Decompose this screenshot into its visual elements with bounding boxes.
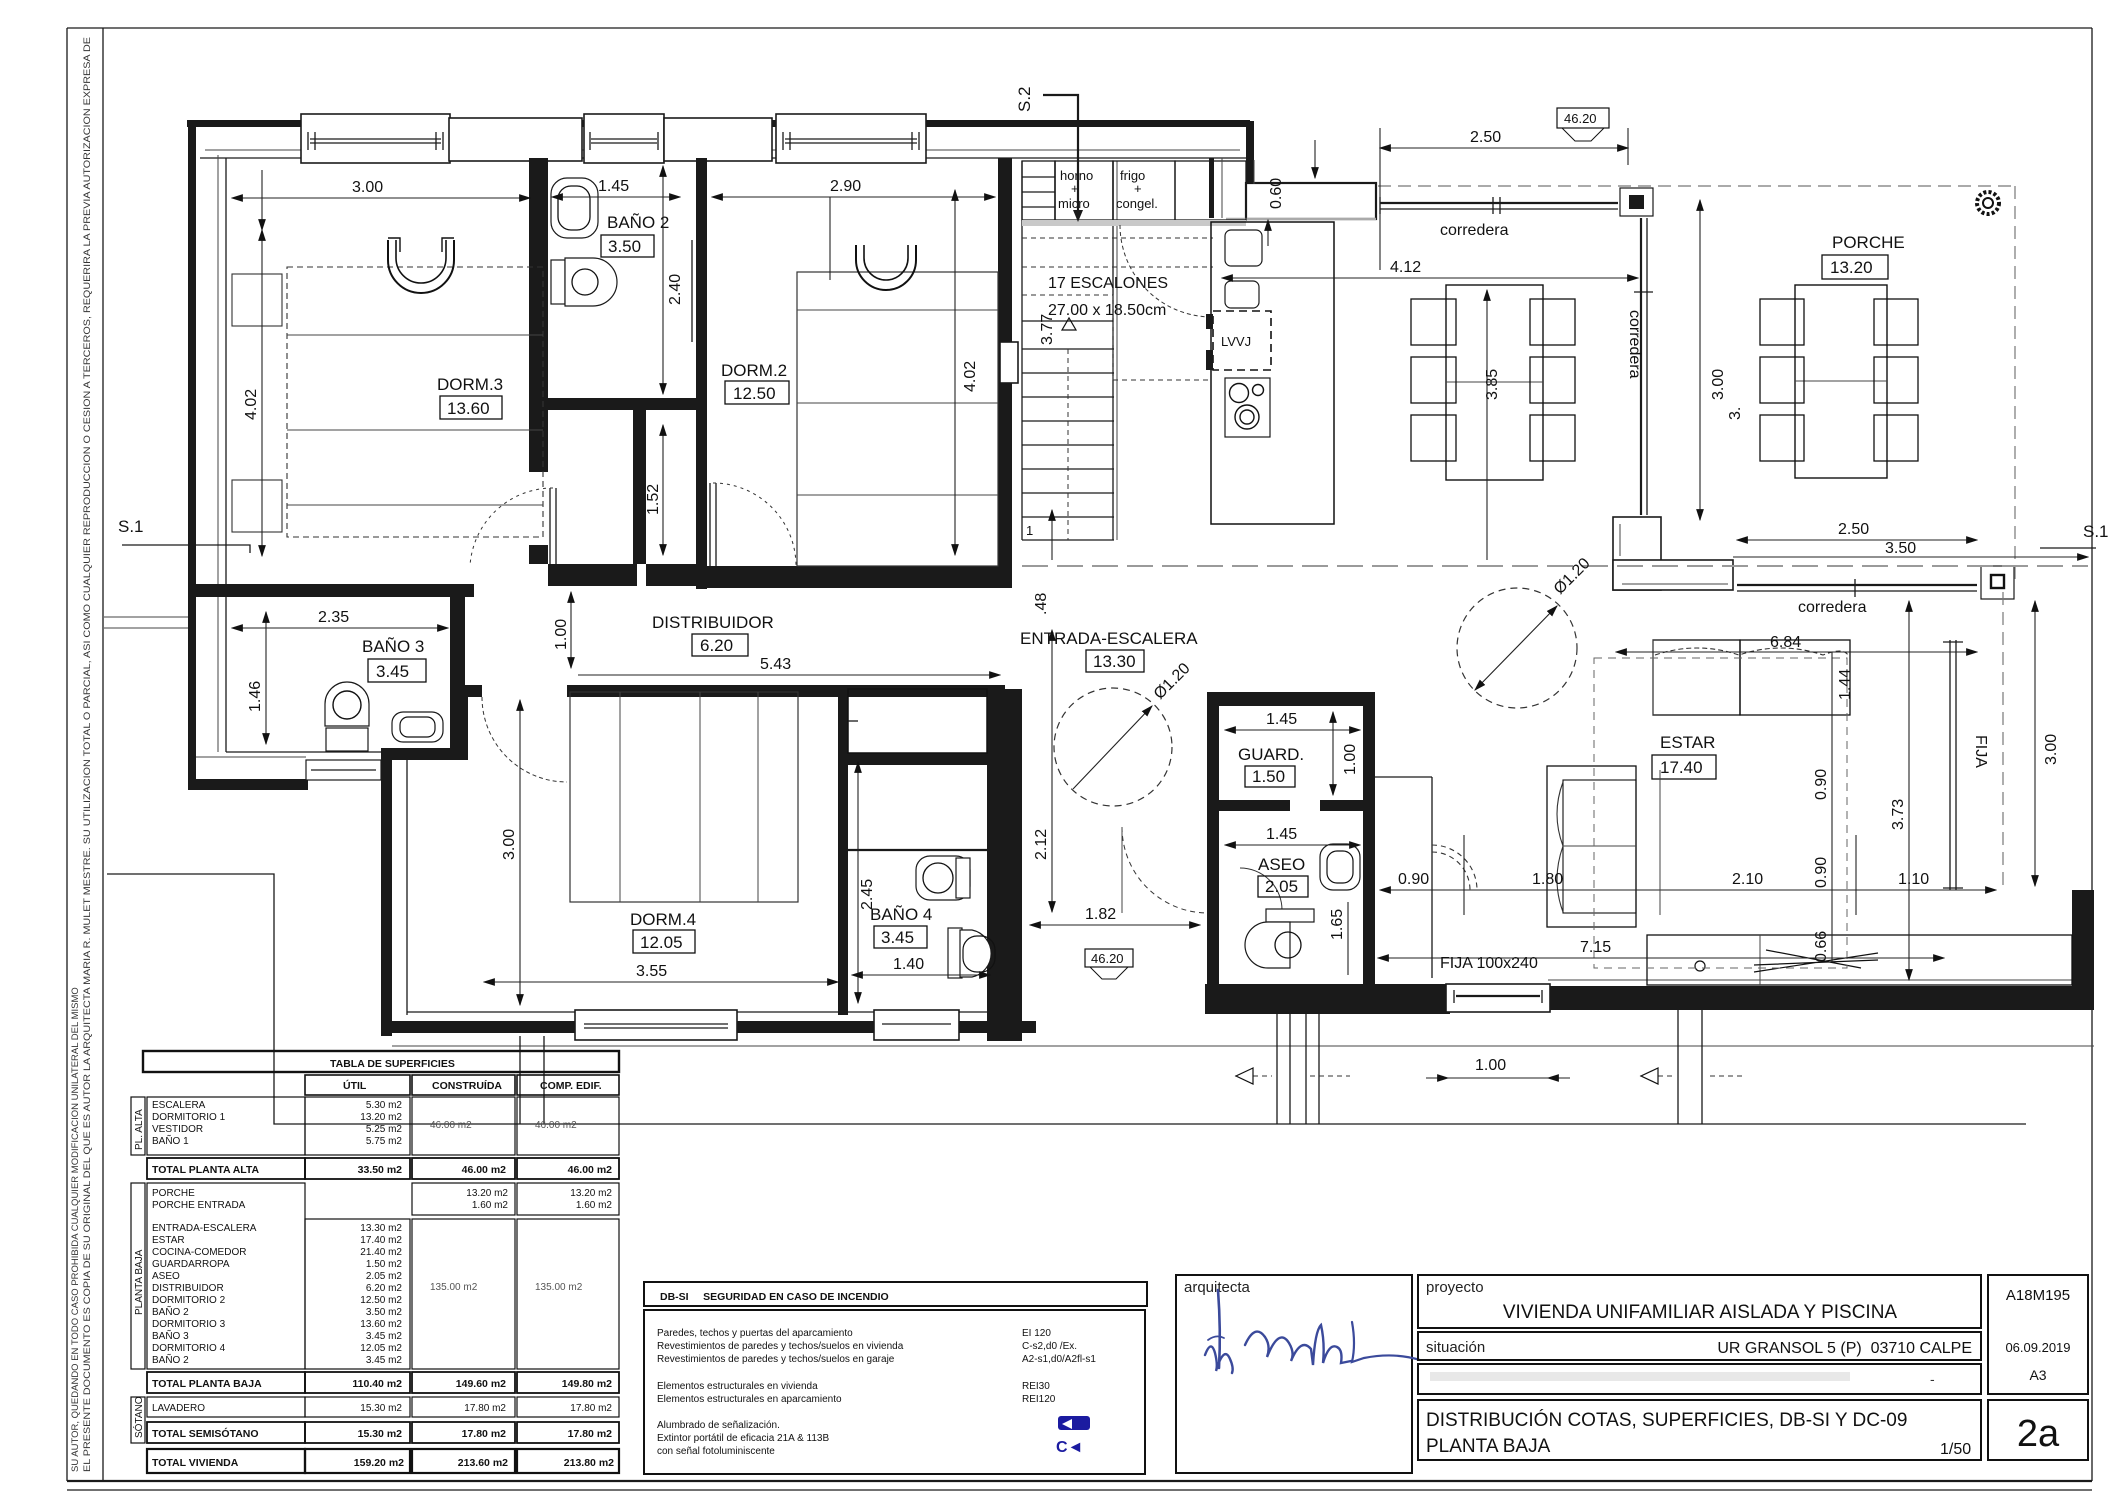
svg-text:110.40 m2: 110.40 m2 (352, 1378, 402, 1390)
svg-text:46.00 m2: 46.00 m2 (462, 1164, 507, 1176)
svg-text:1.60 m2: 1.60 m2 (472, 1200, 509, 1211)
svg-text:46.20: 46.20 (1091, 951, 1124, 966)
wall: top exterior band (187, 120, 1250, 127)
total planta baja (147, 1372, 305, 1393)
wall pier between windows (449, 118, 582, 161)
dim 3.50 estar (1733, 556, 2088, 558)
svg-text:VESTIDOR: VESTIDOR (152, 1124, 203, 1135)
kitchen counter block (1211, 222, 1334, 524)
bano4 toilet (948, 928, 995, 978)
svg-text:149.60 m2: 149.60 m2 (456, 1378, 506, 1390)
wall: bano2 east / dorm2 west (696, 158, 707, 589)
bano2 sink (551, 178, 598, 238)
svg-text:1.46: 1.46 (247, 681, 264, 712)
corredera N glass (1380, 197, 1618, 214)
guard/aseo divider (1207, 800, 1290, 811)
bano3 sink (392, 712, 443, 742)
svg-text:SU AUTOR, QUEDANDO EN TODO CAS: SU AUTOR, QUEDANDO EN TODO CASO PROHIBID… (70, 987, 81, 1472)
svg-text:1.50 m2: 1.50 m2 (366, 1259, 403, 1270)
svg-text:C◄: C◄ (1056, 1439, 1083, 1456)
wall: west exterior (188, 120, 196, 785)
svg-text:12.50: 12.50 (733, 384, 776, 403)
dim 1.82 (1030, 924, 1200, 926)
svg-text:1.50: 1.50 (1252, 767, 1285, 786)
entrada door arc (1122, 827, 1208, 913)
wall: south of bano3 (188, 779, 308, 790)
svg-text:1.52: 1.52 (645, 484, 662, 515)
kitchen door arc (1120, 225, 1212, 317)
svg-text:13.60: 13.60 (447, 399, 490, 418)
bano3 toilet (325, 682, 369, 751)
situacion box (1418, 1332, 1981, 1360)
svg-text:DISTRIBUIDOR: DISTRIBUIDOR (652, 613, 774, 632)
svg-text:17.80 m2: 17.80 m2 (464, 1403, 506, 1414)
wall: dorm4/bano4 divider (838, 697, 848, 1015)
empty box (1418, 1364, 1981, 1394)
aseo toilet (1245, 909, 1314, 968)
bed dorm3 (287, 238, 543, 537)
bed dorm4 (570, 692, 798, 902)
dim 1.00 rot (570, 592, 572, 668)
wall: bano3 east (450, 597, 465, 752)
svg-text:1.45: 1.45 (1266, 826, 1297, 843)
exterior walls (107, 114, 2094, 1124)
wall stub kitchen east (1209, 158, 1214, 218)
door aseo arc (1240, 868, 1282, 910)
bano4 north wall (848, 753, 1005, 765)
svg-text:DORMITORIO 2: DORMITORIO 2 (152, 1295, 226, 1306)
door dorm2 (leaf+arc) (709, 483, 711, 566)
hob (1225, 378, 1270, 437)
svg-text:2.40: 2.40 (667, 274, 684, 305)
46.20 hexagon top (1557, 108, 1609, 141)
svg-text:17.40 m2: 17.40 m2 (360, 1235, 402, 1246)
svg-text:A2-s1,d0/A2fl-s1: A2-s1,d0/A2fl-s1 (1022, 1354, 1096, 1365)
svg-text:Revestimientos de paredes y: Revestimientos de paredes y techos/suelo… (657, 1341, 904, 1352)
svg-text:159.20 m2: 159.20 m2 (354, 1457, 404, 1469)
window FIJA 100x240 (south) (1446, 984, 1550, 1012)
svg-text:TOTAL PLANTA BAJA: TOTAL PLANTA BAJA (152, 1378, 262, 1390)
svg-text:Paredes, techos y puertas: Paredes, techos y puertas del aparcamien… (657, 1328, 853, 1339)
aseo sink (1320, 844, 1360, 890)
group PLANTA BAJA (131, 1183, 145, 1369)
svg-text:0.66: 0.66 (1813, 931, 1830, 962)
stair right boundary (1112, 161, 1114, 540)
svg-text:Extintor portátil de eficac: Extintor portátil de eficacia 21A & 113B (657, 1433, 829, 1444)
svg-text:46.20: 46.20 (1564, 111, 1597, 126)
estar dashed zone (1594, 658, 1847, 968)
svg-text:5.43: 5.43 (760, 656, 791, 673)
svg-text:Elementos estructurales en: Elementos estructurales en aparcamiento (657, 1394, 842, 1405)
svg-text:2.10: 2.10 (1732, 871, 1763, 888)
arquitecta box (1176, 1275, 1412, 1473)
wall: dorm2 east / stair west (998, 158, 1012, 588)
svg-text:S.1: S.1 (118, 517, 144, 536)
svg-text:17 ESCALONES: 17 ESCALONES (1048, 275, 1168, 292)
svg-text:1.82: 1.82 (1085, 906, 1116, 923)
window N3 (776, 114, 926, 163)
door dorm4 (arc) (482, 697, 567, 782)
svg-text:3.45: 3.45 (376, 662, 409, 681)
svg-text:ESTAR: ESTAR (152, 1235, 185, 1246)
svg-text:17.80 m2: 17.80 m2 (570, 1403, 612, 1414)
svg-text:6.20: 6.20 (700, 636, 733, 655)
svg-text:149.80 m2: 149.80 m2 (562, 1378, 612, 1390)
total planta alta (147, 1158, 305, 1179)
svg-text:BAÑO 1: BAÑO 1 (152, 1134, 189, 1147)
svg-text:5.25 m2: 5.25 m2 (366, 1124, 403, 1135)
svg-text:12.50 m2: 12.50 m2 (360, 1295, 402, 1306)
svg-text:2.90: 2.90 (830, 178, 861, 195)
svg-text:2.50: 2.50 (1470, 129, 1501, 146)
window N2 (584, 114, 664, 163)
furniture (232, 178, 2072, 985)
svg-text:REI30: REI30 (1022, 1381, 1050, 1392)
46.20 hexagon entrada (1085, 949, 1133, 979)
stair upper treads (1022, 161, 1113, 321)
wall: dorm3 south (196, 584, 474, 597)
aseo west wall (1207, 811, 1219, 984)
wall: dorm2 south band (707, 566, 1000, 588)
dim 4.12 (1222, 277, 1638, 279)
svg-text:1.65: 1.65 (1329, 909, 1346, 940)
svg-text:TOTAL VIVIENDA: TOTAL VIVIENDA (152, 1457, 239, 1469)
dim 2.50 estar top (1737, 539, 1977, 541)
corner L wall dining/estar (1613, 517, 1733, 590)
sink boxes (1225, 230, 1262, 266)
svg-text:VIVIENDA UNIFAMILIAR AISLADA Y: VIVIENDA UNIFAMILIAR AISLADA Y PISCINA (1503, 1302, 1898, 1323)
svg-text:ESTAR: ESTAR (1660, 733, 1715, 752)
dim 5.43 (578, 674, 1000, 676)
svg-text:5.30 m2: 5.30 m2 (366, 1100, 403, 1111)
svg-text:17.80 m2: 17.80 m2 (462, 1428, 507, 1440)
svg-text:2.12: 2.12 (1033, 829, 1050, 860)
door dorm3 (leaf+arc) (549, 488, 551, 566)
svg-text:A18M195: A18M195 (2006, 1287, 2070, 1304)
svg-text:S.2: S.2 (1015, 86, 1034, 112)
signature (1205, 1290, 1420, 1373)
svg-text:DORMITORIO 4: DORMITORIO 4 (152, 1343, 226, 1354)
svg-text:Elementos estructurales en: Elementos estructurales en vivienda (657, 1381, 818, 1392)
wall: dorm3 east / bano2 west (529, 158, 548, 472)
svg-text:1.00: 1.00 (1475, 1057, 1506, 1074)
dim 7.15 (1378, 957, 1944, 959)
dim 2.40 bano2 (662, 166, 664, 394)
svg-text:46.00 m2: 46.00 m2 (568, 1164, 613, 1176)
svg-text:BAÑO 3: BAÑO 3 (152, 1329, 189, 1342)
section line S1 dashed across (1022, 565, 2088, 567)
window S1 (dorm4) (575, 1010, 737, 1040)
svg-text:17.80 m2: 17.80 m2 (568, 1428, 613, 1440)
foundation line below south walls (392, 1045, 2094, 1047)
window N1 (301, 114, 450, 163)
svg-text:DB-SI SEGURIDAD EN CASO: DB-SI SEGURIDAD EN CASO DE INCENDIO (660, 1291, 889, 1303)
svg-text:3.45: 3.45 (881, 928, 914, 947)
S.1 left mark (118, 517, 250, 553)
svg-text:TOTAL SEMISÓTANO: TOTAL SEMISÓTANO (152, 1427, 259, 1440)
circle 1.20 estar (1457, 588, 1577, 708)
svg-text:DORM.3: DORM.3 (437, 375, 503, 394)
svg-text:3.45 m2: 3.45 m2 (366, 1355, 403, 1366)
svg-text:1: 1 (1026, 523, 1033, 538)
dim 1.45 bano2 (552, 196, 680, 198)
svg-text:7.15: 7.15 (1580, 939, 1611, 956)
stair lower flight treads (1022, 349, 1114, 540)
svg-text:GUARD.: GUARD. (1238, 745, 1304, 764)
svg-text:1.45: 1.45 (598, 178, 629, 195)
svg-text:1.44: 1.44 (1837, 669, 1854, 700)
dim 3.85 (1486, 290, 1488, 560)
svg-text:15.30 m2: 15.30 m2 (360, 1403, 402, 1414)
svg-text:3.50 m2: 3.50 m2 (366, 1307, 403, 1318)
svg-text:2.05 m2: 2.05 m2 (366, 1271, 403, 1282)
dimensions and labels (232, 108, 2088, 1078)
dim 1.00 guard (1332, 712, 1334, 795)
svg-text:12.05 m2: 12.05 m2 (360, 1343, 402, 1354)
dim 2.35 bano3 (232, 627, 448, 629)
svg-text:FIJA 100x240: FIJA 100x240 (1440, 955, 1538, 972)
svg-text:13.20: 13.20 (1830, 258, 1873, 277)
S.2 section mark (1015, 86, 1083, 222)
dim 2.12 (1051, 630, 1053, 912)
corredera S glass (estar north) (1737, 579, 1977, 597)
dim 3.00 dorm4 (519, 700, 521, 1005)
svg-text:TABLA DE SUPERFICIES: TABLA DE SUPERFICIES (330, 1058, 455, 1070)
wall: entrada west / bano4 east (987, 689, 1022, 1041)
window W-west below bano3 (306, 760, 381, 780)
svg-text:Revestimientos de paredes y: Revestimientos de paredes y techos/suelo… (657, 1354, 895, 1365)
svg-text:13.30 m2: 13.30 m2 (360, 1223, 402, 1234)
wall: south exterior of dorm4/bano4 (381, 1021, 1036, 1033)
right info box (1988, 1275, 2088, 1394)
svg-text:1.40: 1.40 (893, 956, 924, 973)
niche plate on dorm2 east wall (1000, 342, 1018, 383)
svg-text:13.20 m2: 13.20 m2 (570, 1188, 612, 1199)
svg-text:ESCALERA: ESCALERA (152, 1100, 206, 1111)
svg-text:3.: 3. (1727, 407, 1744, 420)
column NE of dining (1620, 188, 1653, 216)
dim 1.52 (662, 425, 664, 555)
svg-text:S.1: S.1 (2083, 522, 2109, 541)
blue icon: emergency light (1058, 1416, 1090, 1430)
svg-text:1.80: 1.80 (1532, 871, 1563, 888)
dashed porch edge east (2002, 592, 2004, 890)
svg-text:33.50 m2: 33.50 m2 (358, 1164, 403, 1176)
svg-text:135.00 m2: 135.00 m2 (535, 1282, 583, 1293)
svg-text:1.60 m2: 1.60 m2 (576, 1200, 613, 1211)
svg-text:17.40: 17.40 (1660, 758, 1703, 777)
svg-text:+: + (1134, 181, 1142, 196)
svg-text:2a: 2a (2017, 1413, 2060, 1455)
svg-text:proyecto: proyecto (1426, 1279, 1484, 1296)
svg-text:3.85: 3.85 (1484, 369, 1501, 400)
svg-text:6.84: 6.84 (1770, 634, 1801, 651)
svg-text:DORMITORIO 1: DORMITORIO 1 (152, 1112, 226, 1123)
svg-text:PLANTA BAJA: PLANTA BAJA (1426, 1436, 1551, 1457)
wall: corridor stub below dorm3 door (529, 545, 548, 564)
svg-text:situación: situación (1426, 1339, 1485, 1356)
porch dashed boundary (1378, 185, 2015, 187)
svg-text:.48: .48 (1033, 593, 1050, 615)
svg-text:C-s2,d0 /Ex.: C-s2,d0 /Ex. (1022, 1341, 1077, 1352)
svg-text:213.80 m2: 213.80 m2 (564, 1457, 614, 1469)
sliding door pocket bano2 (697, 245, 704, 337)
stair left line (1021, 161, 1023, 540)
wall: estar SE corner (2072, 890, 2094, 1010)
tabla de superficies (131, 1051, 619, 1473)
distribuidor niche walls (633, 410, 646, 564)
sheet title box (1418, 1400, 1981, 1460)
svg-text:13.20 m2: 13.20 m2 (466, 1188, 508, 1199)
svg-text:2.50: 2.50 (1838, 521, 1869, 538)
svg-text:ENTRADA-ESCALERA: ENTRADA-ESCALERA (152, 1223, 257, 1234)
svg-text:3.77: 3.77 (1039, 314, 1056, 345)
dim 3.55 dorm4 (484, 981, 838, 983)
svg-text:DORM.2: DORM.2 (721, 361, 787, 380)
wall: top interior face (200, 157, 1246, 159)
svg-text:PORCHE: PORCHE (1832, 233, 1905, 252)
leader from plan through table (strike line) (107, 874, 2026, 1124)
svg-text:BAÑO 4: BAÑO 4 (870, 905, 932, 924)
svg-text:4.12: 4.12 (1390, 259, 1421, 276)
bedside tables dorm3 (232, 274, 282, 326)
dim 1.65 aseo (1347, 902, 1349, 975)
svg-text:3.00: 3.00 (2043, 734, 2060, 765)
wall: estar south band (1548, 986, 2094, 1010)
svg-text:1/50: 1/50 (1940, 1441, 1971, 1458)
svg-text:UR GRANSOL 5 (P) 03710 CALPE: UR GRANSOL 5 (P) 03710 CALPE (1717, 1340, 1972, 1357)
porch-entrada columns below (520, 1010, 1702, 1124)
svg-text:FIJA: FIJA (1972, 735, 1989, 768)
svg-text:SÓTANO: SÓTANO (132, 1396, 145, 1438)
bed dorm2 (797, 245, 998, 566)
dims 0.90 1.80 2.10 1.10 row (1380, 889, 1464, 891)
door estar 0.90 arc (1432, 845, 1477, 890)
svg-text:PORCHE ENTRADA: PORCHE ENTRADA (152, 1200, 246, 1211)
circle 1.20 entrada (1054, 688, 1172, 806)
closet partition east of aseo (1375, 776, 1432, 778)
bano4 interior divider (848, 849, 1005, 851)
svg-text:corredera: corredera (1440, 222, 1509, 239)
svg-text:4.02: 4.02 (243, 389, 260, 420)
wardrobe dorm4 (848, 689, 987, 753)
svg-text:6.20 m2: 6.20 m2 (366, 1283, 403, 1294)
svg-text:13.30: 13.30 (1093, 652, 1136, 671)
svg-text:DISTRIBUCIÓN COTAS, SUPERFICIE: DISTRIBUCIÓN COTAS, SUPERFICIES, DB-SI Y… (1426, 1409, 1907, 1431)
dim chain 0.90/0.90 vertical (1831, 716, 1833, 890)
svg-text:3.55: 3.55 (636, 963, 667, 980)
sofa top (estar) (1653, 640, 1850, 715)
svg-text:1.00: 1.00 (553, 619, 570, 650)
svg-text:21.40 m2: 21.40 m2 (360, 1247, 402, 1258)
svg-text:A3: A3 (2029, 1367, 2046, 1383)
svg-text:0.90: 0.90 (1813, 857, 1830, 888)
border-to-wall projection lines (104, 616, 188, 618)
svg-text:congel.: congel. (1116, 196, 1158, 211)
svg-text:corredera: corredera (1626, 310, 1643, 379)
dim 1.44 (1831, 652, 1833, 716)
svg-text:12.05: 12.05 (640, 933, 683, 952)
svg-text:27.00 x 18.50cm: 27.00 x 18.50cm (1048, 302, 1166, 319)
dim 1.45 aseo (1225, 844, 1360, 846)
svg-text:1.10: 1.10 (1898, 871, 1929, 888)
svg-text:3.73: 3.73 (1890, 799, 1907, 830)
svg-text:TOTAL PLANTA ALTA: TOTAL PLANTA ALTA (152, 1164, 260, 1176)
svg-text:3.50: 3.50 (608, 237, 641, 256)
svg-text:213.60 m2: 213.60 m2 (458, 1457, 508, 1469)
svg-text:3.50: 3.50 (1885, 540, 1916, 557)
sofa left (estar) (1547, 766, 1636, 927)
svg-text:PL. ALTA: PL. ALTA (134, 1109, 145, 1150)
DB-SI box (644, 1282, 1147, 1474)
svg-text:EI 120: EI 120 (1022, 1328, 1051, 1339)
svg-text:4.02: 4.02 (962, 361, 979, 392)
dim 6.84 (1616, 651, 1977, 653)
svg-text:DISTRIBUIDOR: DISTRIBUIDOR (152, 1283, 224, 1294)
svg-text:DORM.4: DORM.4 (630, 910, 696, 929)
wall: south of aseo/entrada (1205, 984, 1450, 1014)
bano4 sink (916, 856, 970, 900)
sheet number box (1988, 1400, 2088, 1460)
wall: dorm4 north band (456, 685, 482, 697)
small dashed direction arrows below walls (1235, 1075, 1745, 1077)
svg-text:3.00: 3.00 (352, 179, 383, 196)
svg-text:Alumbrado de señalización.: Alumbrado de señalización. (657, 1420, 780, 1431)
svg-text:COMP. EDIF.: COMP. EDIF. (540, 1080, 602, 1092)
dim 3.00 porch (1699, 200, 1701, 520)
svg-text:0.90: 0.90 (1398, 871, 1429, 888)
svg-text:LAVADERO: LAVADERO (152, 1403, 205, 1414)
dim 3.00 dorm3 (232, 197, 530, 199)
svg-text:13.60 m2: 13.60 m2 (360, 1319, 402, 1330)
svg-text:1.45: 1.45 (1266, 711, 1297, 728)
stair start arrow (1051, 510, 1053, 560)
bano2 toilet (551, 258, 617, 306)
svg-text:ASEO: ASEO (152, 1271, 180, 1282)
wall: step at kitchen NE (1246, 121, 1254, 187)
svg-text:EL PRESENTE DOCUMENTO ES COPIA: EL PRESENTE DOCUMENTO ES COPIA DE SU ORI… (82, 37, 93, 1472)
left margin vertical disclaimer text (70, 37, 93, 1472)
svg-text:3.00: 3.00 (501, 829, 518, 860)
svg-text:2.35: 2.35 (318, 609, 349, 626)
svg-text:micro: micro (1058, 196, 1090, 211)
wall: dorm4 west exterior (381, 748, 392, 1036)
svg-text:con señal fotoluminiscente: con señal fotoluminiscente (657, 1446, 775, 1457)
guard walls (1207, 692, 1375, 706)
svg-text:135.00 m2: 135.00 m2 (430, 1282, 478, 1293)
svg-text:ÚTIL: ÚTIL (343, 1079, 367, 1092)
dining table 2 (porch) (1760, 285, 1918, 478)
svg-text:GUARDARROPA: GUARDARROPA (152, 1259, 230, 1270)
dim 1.45 guard (1225, 729, 1360, 731)
table header (143, 1051, 619, 1072)
S.1 right mark (2040, 522, 2109, 548)
svg-text:06.09.2019: 06.09.2019 (2005, 1340, 2070, 1355)
dim 4.02 dorm3 (261, 230, 263, 556)
svg-text:3.00: 3.00 (1710, 369, 1727, 400)
total semisotano (147, 1422, 305, 1443)
dim 3.00 east (2034, 601, 2036, 886)
interior walls (104, 86, 2109, 1041)
dim 1.40 bano4 (852, 974, 990, 976)
column headers (305, 1075, 410, 1095)
svg-text:CONSTRUÍDA: CONSTRUÍDA (432, 1079, 502, 1092)
group sotano (131, 1397, 145, 1443)
svg-text:1.00: 1.00 (1342, 744, 1359, 775)
svg-text:REI120: REI120 (1022, 1394, 1056, 1405)
LVVJ dashed (1213, 311, 1271, 370)
title block (1176, 1275, 2088, 1473)
